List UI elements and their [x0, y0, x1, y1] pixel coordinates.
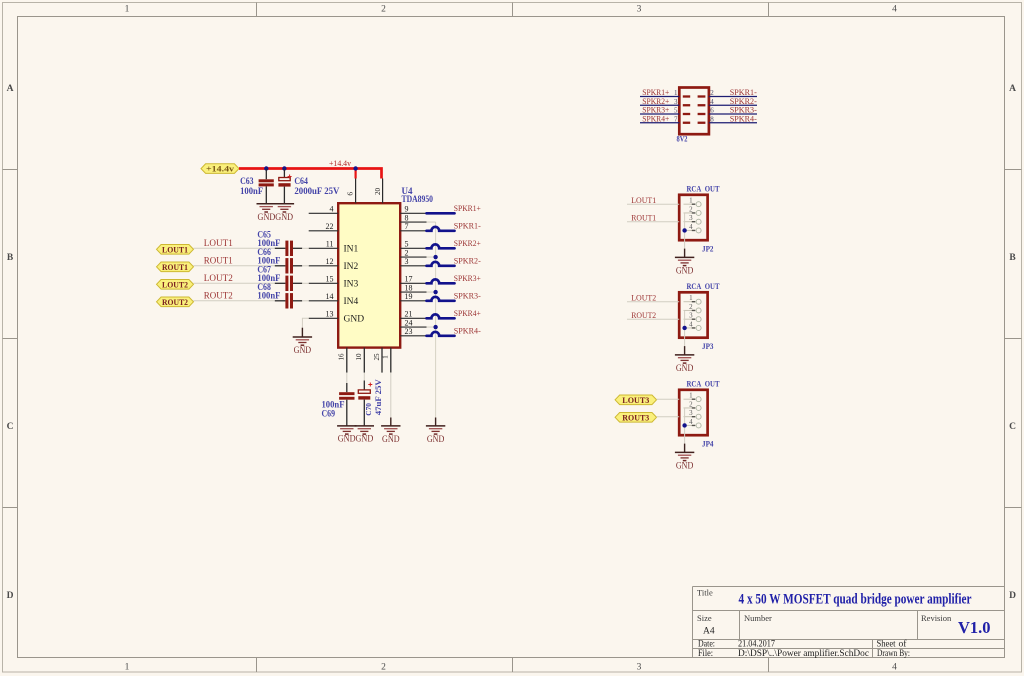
wire pin16 down — [346, 373, 348, 383]
svg-text:100nF: 100nF — [240, 186, 263, 196]
pin 10 bottom — [354, 348, 364, 373]
wire JP4 internal ground — [684, 408, 686, 444]
wire LOUT2 — [627, 301, 679, 303]
wire stub to gnd column — [427, 325, 438, 329]
svg-text:8: 8 — [405, 213, 409, 222]
wire SPKR3- to SV2 pin 6 — [698, 107, 757, 115]
svg-text:SPKR4-: SPKR4- — [730, 113, 757, 123]
svg-text:GND: GND — [294, 345, 312, 355]
JP3 pin 1 — [684, 294, 702, 304]
wire ROUT2 — [627, 318, 679, 320]
svg-text:ROUT1: ROUT1 — [204, 256, 233, 266]
ground under C64 — [258, 204, 295, 222]
port ROUT3 — [615, 412, 657, 422]
port ROUT2 — [157, 297, 194, 307]
svg-text:4 x 50 W MOSFET quad bridge po: 4 x 50 W MOSFET quad bridge power amplif… — [739, 592, 972, 608]
svg-text:8V2: 8V2 — [677, 134, 688, 144]
pin 13 left — [309, 310, 339, 319]
svg-text:IN2: IN2 — [344, 262, 359, 272]
wire ROUT1 — [627, 221, 679, 223]
wire LOUT1 — [627, 203, 679, 205]
svg-text:SPKR3-: SPKR3- — [454, 291, 481, 301]
svg-text:JP3: JP3 — [702, 341, 714, 351]
pin 2 right — [400, 248, 426, 257]
pin 20 top — [373, 179, 383, 204]
wire JP3 internal ground — [684, 310, 686, 346]
svg-text:SPKR1-: SPKR1- — [454, 221, 481, 231]
svg-text:3: 3 — [637, 663, 642, 673]
wire ROUT2 — [194, 300, 275, 302]
svg-text:IN4: IN4 — [344, 297, 359, 307]
svg-text:12: 12 — [326, 257, 334, 266]
junction JP3 pin4 — [682, 326, 686, 330]
svg-text:B: B — [7, 253, 14, 263]
wire LOUT3 — [657, 398, 680, 400]
wire SPKR4+ to SV2 pin 7 — [640, 115, 690, 123]
svg-text:6: 6 — [710, 107, 714, 115]
ground JP3 — [675, 346, 694, 373]
svg-text:ROUT2: ROUT2 — [162, 297, 188, 307]
svg-text:ROUT2: ROUT2 — [204, 291, 233, 301]
svg-text:Revision: Revision — [921, 613, 952, 623]
capacitor C68 — [257, 282, 308, 308]
svg-text:A: A — [7, 84, 14, 94]
ground right column — [426, 418, 445, 445]
svg-text:ROUT3: ROUT3 — [622, 412, 649, 422]
pin 14 left — [309, 292, 339, 301]
capacitor C64 polarized — [278, 169, 339, 204]
svg-text:LOUT2: LOUT2 — [204, 273, 233, 283]
svg-text:GNDGND: GNDGND — [258, 212, 294, 222]
pin 6 top — [346, 179, 356, 204]
title block — [693, 587, 1005, 658]
svg-text:TDA8950: TDA8950 — [402, 194, 434, 204]
ground pin1 — [381, 418, 400, 445]
svg-text:1: 1 — [689, 197, 693, 205]
connector JP2 body — [679, 195, 707, 240]
pin 25 bottom — [372, 348, 382, 373]
svg-text:Title: Title — [697, 588, 713, 598]
wire LOUT1 — [194, 247, 275, 249]
svg-text:Number: Number — [744, 613, 772, 623]
svg-text:A4: A4 — [703, 627, 715, 637]
wire JP2 internal ground — [684, 213, 686, 249]
svg-text:LOUT1: LOUT1 — [631, 195, 656, 205]
svg-text:21: 21 — [405, 310, 413, 319]
capacitor C70 polarized — [358, 378, 383, 425]
svg-text:V1.0: V1.0 — [958, 618, 991, 637]
svg-text:4: 4 — [689, 223, 693, 231]
svg-text:18: 18 — [405, 283, 413, 292]
wire SPKR1- to SV2 pin 2 — [698, 89, 757, 97]
svg-text:LOUT3: LOUT3 — [622, 395, 649, 405]
svg-text:100nF: 100nF — [257, 291, 280, 301]
svg-text:2: 2 — [689, 303, 693, 311]
svg-text:4: 4 — [892, 663, 897, 673]
svg-text:22: 22 — [326, 222, 334, 231]
svg-text:ROUT1: ROUT1 — [631, 212, 656, 222]
svg-text:3: 3 — [689, 214, 693, 222]
svg-text:SPKR2-: SPKR2- — [454, 256, 481, 266]
wire SPKR1- output — [427, 227, 455, 231]
svg-text:LOUT1: LOUT1 — [204, 238, 233, 248]
svg-text:19: 19 — [405, 292, 413, 301]
svg-text:11: 11 — [326, 240, 334, 249]
pin 22 left — [309, 222, 339, 231]
wire SPKR2- to SV2 pin 4 — [698, 98, 757, 106]
JP2 pin 4 — [684, 223, 702, 233]
power port +14.4v — [201, 164, 239, 174]
svg-text:GND: GND — [676, 266, 694, 276]
svg-text:1: 1 — [689, 392, 693, 400]
svg-text:D:\DSP\..\Power amplifier.SchD: D:\DSP\..\Power amplifier.SchDoc — [738, 648, 869, 658]
svg-text:4: 4 — [710, 98, 714, 106]
ground JP2 — [675, 249, 694, 276]
svg-text:1: 1 — [689, 294, 693, 302]
wire stub to gnd column — [427, 255, 438, 259]
svg-text:RCA OUT: RCA OUT — [687, 183, 720, 193]
red stub pin 6 — [355, 169, 357, 179]
wire +14.4v rail — [239, 169, 382, 179]
JP4 pin 3 — [684, 409, 702, 419]
pin 7 right — [400, 222, 426, 231]
svg-text:C: C — [7, 422, 14, 432]
svg-text:SPKR1+: SPKR1+ — [454, 203, 481, 213]
JP3 pin 2 — [684, 303, 702, 313]
svg-text:20: 20 — [373, 188, 382, 195]
svg-text:GND: GND — [676, 461, 694, 471]
wire SPKR2+ to SV2 pin 3 — [640, 98, 690, 106]
pin 15 left — [309, 275, 339, 284]
wire SPKR4- output — [427, 332, 455, 336]
JP3 pin 4 — [684, 320, 702, 330]
svg-text:IN3: IN3 — [344, 280, 359, 290]
svg-text:13: 13 — [326, 310, 334, 319]
svg-text:14: 14 — [326, 292, 334, 301]
JP2 pin 3 — [684, 214, 702, 224]
svg-text:D: D — [1009, 591, 1016, 601]
pin 1 bottom — [381, 348, 391, 373]
port ROUT1 — [157, 262, 194, 272]
svg-text:15: 15 — [326, 275, 334, 284]
svg-text:24: 24 — [405, 318, 413, 327]
svg-text:GND: GND — [676, 363, 694, 373]
JP2 pin 2 — [684, 205, 702, 215]
ground under C70 — [338, 426, 374, 444]
pin 24 right — [400, 318, 426, 327]
svg-text:3: 3 — [689, 312, 693, 320]
wire SPKR3+ to SV2 pin 5 — [640, 107, 690, 115]
svg-text:GNDGND: GNDGND — [338, 434, 374, 444]
ground pin13 — [293, 328, 312, 356]
svg-text:6: 6 — [346, 192, 355, 196]
junction C64 tap — [282, 166, 286, 170]
port LOUT1 — [157, 244, 194, 254]
wire stub to gnd column — [427, 221, 436, 223]
pin 17 right — [400, 275, 426, 284]
junction pin6 tap — [353, 166, 357, 170]
pin 23 right — [400, 327, 426, 336]
svg-text:1: 1 — [125, 5, 130, 15]
svg-text:ROUT2: ROUT2 — [631, 310, 656, 320]
svg-text:GND: GND — [427, 434, 445, 444]
connector SV2 body — [679, 88, 709, 135]
svg-text:4: 4 — [689, 418, 693, 426]
wire SPKR4+ output — [427, 314, 455, 318]
pin 4 left — [309, 205, 339, 214]
pin 21 right — [400, 310, 426, 319]
svg-text:RCA OUT: RCA OUT — [687, 281, 720, 291]
wire ROUT1 — [194, 265, 275, 267]
svg-text:+14.4v: +14.4v — [329, 158, 352, 168]
svg-text:25: 25 — [372, 353, 381, 360]
pin 16 bottom — [337, 348, 347, 373]
svg-text:D: D — [7, 591, 14, 601]
svg-text:2: 2 — [689, 205, 693, 213]
op IC U4 TDA8950 body — [338, 203, 400, 347]
JP3 pin 3 — [684, 312, 702, 322]
svg-text:1: 1 — [674, 89, 678, 97]
JP4 pin 4 — [684, 418, 702, 428]
svg-text:1: 1 — [125, 663, 130, 673]
wire stub to gnd column — [427, 290, 438, 294]
svg-text:GND: GND — [344, 315, 365, 325]
svg-text:SPKR4+: SPKR4+ — [642, 113, 669, 123]
svg-text:File:: File: — [698, 648, 713, 658]
JP4 pin 1 — [684, 392, 702, 402]
svg-text:3: 3 — [405, 257, 409, 266]
svg-text:17: 17 — [405, 275, 413, 284]
capacitor C69 — [322, 383, 355, 426]
pin 8 right — [400, 213, 426, 222]
svg-text:Size: Size — [697, 613, 712, 623]
svg-text:3: 3 — [674, 98, 678, 106]
port LOUT3 — [615, 395, 657, 405]
svg-text:SPKR4+: SPKR4+ — [454, 308, 481, 318]
pin 12 left — [309, 257, 339, 266]
capacitor C65 — [257, 230, 308, 256]
svg-text:4: 4 — [892, 5, 897, 15]
pin 5 right — [400, 240, 426, 249]
svg-text:16: 16 — [337, 353, 346, 360]
wire SPKR3- output — [427, 297, 455, 301]
JP4 pin 2 — [684, 400, 702, 410]
svg-text:C: C — [1009, 422, 1016, 432]
wire ROUT3 — [657, 416, 680, 418]
connector JP4 body — [679, 390, 707, 435]
svg-text:3: 3 — [637, 5, 642, 15]
svg-text:ROUT1: ROUT1 — [162, 262, 188, 272]
pin 9 right — [400, 205, 426, 214]
pin 18 right — [400, 283, 426, 292]
junction C63 tap — [264, 166, 268, 170]
pin 3 right — [400, 257, 426, 266]
svg-text:SPKR3+: SPKR3+ — [454, 273, 481, 283]
junction JP2 pin4 — [682, 228, 686, 232]
svg-text:C64: C64 — [294, 176, 308, 186]
svg-text:23: 23 — [405, 327, 413, 336]
wire pin10 down — [363, 373, 365, 381]
svg-text:9: 9 — [405, 205, 409, 214]
wire LOUT2 — [194, 282, 275, 284]
wire gnd column right — [435, 222, 437, 417]
svg-text:B: B — [1009, 253, 1016, 263]
port LOUT2 — [157, 279, 194, 289]
ground under C69 — [337, 426, 356, 434]
ground JP4 — [675, 444, 694, 471]
svg-text:2: 2 — [381, 5, 386, 15]
pin 19 right — [400, 292, 426, 301]
wire SPKR1+ output — [427, 212, 455, 215]
svg-text:3: 3 — [689, 409, 693, 417]
wire SPKR3+ output — [427, 279, 455, 283]
wire pin13 to ground — [302, 318, 308, 327]
svg-text:5: 5 — [405, 240, 409, 249]
JP2 pin 1 — [684, 197, 702, 207]
capacitor C66 — [257, 247, 308, 273]
svg-text:SPKR4-: SPKR4- — [454, 326, 481, 336]
svg-text:+14.4v: +14.4v — [206, 164, 235, 174]
svg-text:10: 10 — [354, 353, 363, 360]
svg-text:7: 7 — [405, 222, 409, 231]
svg-text:2000uF 25V: 2000uF 25V — [294, 186, 339, 196]
svg-text:4: 4 — [330, 205, 334, 214]
svg-text:GND: GND — [382, 434, 400, 444]
svg-text:A: A — [1009, 84, 1016, 94]
capacitor C67 — [257, 265, 308, 291]
svg-text:SPKR2+: SPKR2+ — [454, 238, 481, 248]
svg-text:LOUT1: LOUT1 — [162, 244, 188, 254]
wire pin1 to ground — [390, 372, 392, 417]
svg-text:2: 2 — [405, 248, 409, 257]
svg-text:JP4: JP4 — [702, 439, 714, 449]
wire SPKR4- to SV2 pin 8 — [698, 115, 757, 123]
svg-text:8: 8 — [710, 115, 714, 123]
junction JP4 pin4 — [682, 423, 686, 427]
svg-text:2: 2 — [689, 400, 693, 408]
svg-text:IN1: IN1 — [344, 245, 359, 255]
svg-text:C63: C63 — [240, 176, 254, 186]
wire SPKR1+ to SV2 pin 1 — [640, 89, 690, 97]
svg-text:4: 4 — [689, 320, 693, 328]
wire SPKR2- output — [427, 262, 455, 266]
svg-text:LOUT2: LOUT2 — [631, 292, 656, 302]
svg-text:C69: C69 — [322, 409, 336, 419]
svg-text:7: 7 — [674, 115, 678, 123]
wire SPKR2+ output — [427, 244, 455, 248]
ground under C63 — [257, 204, 276, 212]
svg-text:5: 5 — [674, 107, 678, 115]
svg-text:2: 2 — [381, 663, 386, 673]
svg-text:47uF 25V: 47uF 25V — [373, 378, 383, 415]
pin 11 left — [309, 240, 339, 249]
svg-text:JP2: JP2 — [702, 244, 714, 254]
svg-text:LOUT2: LOUT2 — [162, 279, 188, 289]
svg-text:Drawn By:: Drawn By: — [877, 648, 910, 658]
svg-text:RCA OUT: RCA OUT — [687, 378, 720, 388]
connector JP3 body — [679, 292, 707, 337]
capacitor C63 — [240, 169, 274, 204]
svg-text:C70: C70 — [364, 403, 373, 416]
svg-text:1: 1 — [381, 355, 390, 359]
svg-text:2: 2 — [710, 89, 714, 97]
